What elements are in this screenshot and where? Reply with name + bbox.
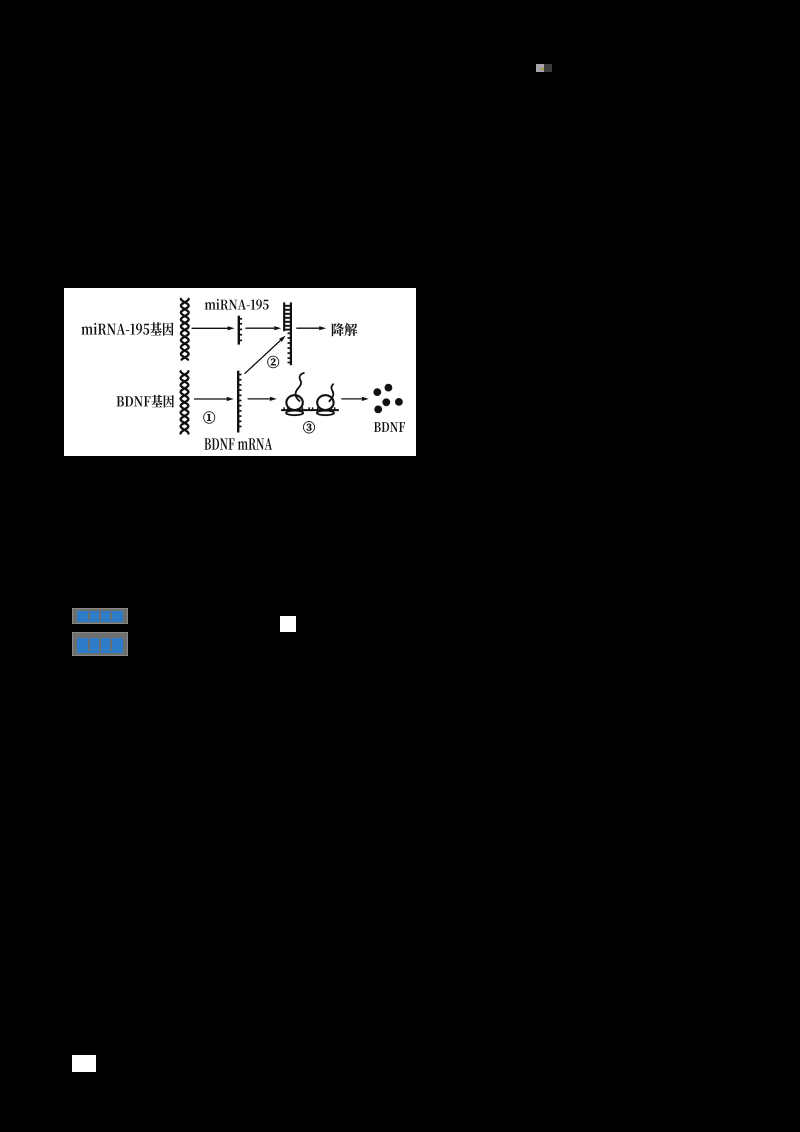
arrow translation [248, 398, 270, 400]
arrow to BDNF protein [341, 398, 362, 400]
label 降解 (degradation) [332, 323, 358, 336]
toolbar icon dark square [544, 64, 552, 72]
miRNA-195 transcript comb [238, 316, 240, 345]
arrow 1 transcription BDNF [194, 398, 227, 400]
right ribosome [317, 395, 333, 410]
DNA helix BDNF gene [181, 371, 189, 433]
answer button 1 [72, 608, 128, 624]
mRNA single-strand teeth below duplex [288, 332, 291, 334]
duplex ladder miRNA/mRNA [283, 302, 285, 331]
circled 2 [267, 356, 279, 368]
left polypeptide squiggle [296, 373, 304, 401]
answer button 1 blue text block [77, 611, 123, 622]
diagram panel [64, 288, 416, 456]
BDNF protein dots [373, 388, 381, 396]
toolbar icon light square [536, 64, 544, 72]
circled 1 [203, 411, 215, 423]
DNA helix miRNA-195 gene [181, 299, 189, 360]
left ribosome [286, 395, 302, 410]
ribosomes on mRNA [281, 409, 339, 411]
toolbar icon yellow dot [541, 68, 544, 71]
white marker square [280, 616, 296, 632]
label miRNA-195 [205, 299, 269, 310]
answer button 2 [72, 632, 128, 656]
arrow miRNA binds mRNA [245, 327, 274, 329]
arrow transcription miRNA gene [192, 327, 228, 329]
circled 3 [303, 421, 315, 433]
label BDNF基因 [117, 395, 174, 408]
label miRNA-195基因 [81, 322, 173, 336]
label BDNF mRNA [204, 438, 272, 450]
right polypeptide squiggle [329, 384, 333, 401]
arrow 2 diagonal binding [245, 340, 281, 373]
answer button 2 blue text block [77, 638, 123, 654]
BDNF mRNA comb [237, 371, 239, 433]
page number white box [72, 1055, 96, 1072]
arrow to degradation [296, 327, 319, 329]
label BDNF [374, 422, 405, 432]
